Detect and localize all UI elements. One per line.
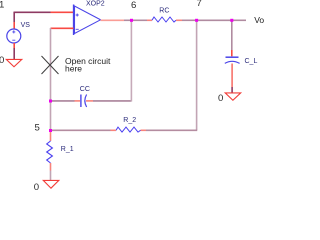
pin R_2 right (salmon) <box>141 129 147 131</box>
pin R_1 top (salmon) <box>50 131 52 141</box>
wire node6 to RC (mauve) <box>131 19 147 21</box>
junction dot at CC tap <box>49 100 52 103</box>
wire to ground (dark) <box>13 48 15 59</box>
svg-text:7: 7 <box>197 0 202 9</box>
op-amp output pin (salmon) <box>101 19 125 21</box>
pin RC right (salmon) <box>176 19 182 21</box>
wire node1 horizontal (dark) <box>14 11 51 13</box>
resistor R_2 zigzag <box>116 127 141 132</box>
capacitor C1 curved plate <box>85 95 87 108</box>
svg-text:R_2: R_2 <box>123 117 136 124</box>
wire feedback row right segment (mauve) <box>146 129 197 131</box>
junction dot at CL tap <box>230 19 233 22</box>
wire CL tap down (mauve) <box>231 20 233 50</box>
svg-text:RC: RC <box>159 7 169 14</box>
VS plus symbol <box>12 30 15 33</box>
junction dot node 5 <box>49 129 52 132</box>
pin red below Vs <box>13 43 15 48</box>
voltage source VS circle <box>7 29 21 43</box>
wire RC to node7 (mauve) <box>182 19 197 21</box>
svg-text:0: 0 <box>218 93 223 104</box>
pin CL bottom (salmon) <box>231 64 233 88</box>
svg-text:0: 0 <box>0 55 4 66</box>
wire node7 to CL tap (mauve) <box>197 19 232 21</box>
junction dot node 7 <box>195 19 198 22</box>
ground under VS <box>6 59 21 66</box>
capacitor C1 left plate <box>80 95 82 108</box>
wire to Vo (mauve) <box>232 19 247 21</box>
wire node7 down to feedback row (light) <box>196 20 198 130</box>
wire node5 to R_2 (mauve) <box>51 129 111 131</box>
pin RC left (salmon) <box>147 19 152 21</box>
svg-text:R_1: R_1 <box>61 146 74 153</box>
pin red above Vs <box>13 22 15 30</box>
wire CC left (mauve) <box>51 100 75 102</box>
wire CC right to riser (mauve) <box>93 100 131 102</box>
wire pin to op-amp - input (red) <box>51 27 74 29</box>
pin CL top (red) <box>231 50 233 56</box>
wire vertical inverting input down (light) <box>50 28 52 101</box>
svg-text:CC: CC <box>80 86 90 93</box>
svg-text:5: 5 <box>35 123 40 134</box>
ground under R_1 <box>43 180 59 188</box>
svg-text:6: 6 <box>131 0 136 11</box>
svg-text:0: 0 <box>34 182 39 190</box>
pin R_2 left (salmon) <box>111 129 117 131</box>
op-amp minus input mark <box>76 28 79 30</box>
op-amp U1 triangle XOP2 <box>75 6 101 34</box>
wire riser node6 down to CC (light) <box>130 20 132 102</box>
svg-text:here: here <box>65 63 82 73</box>
op-amp input bar <box>73 5 75 36</box>
pin CC left (salmon) <box>75 100 81 102</box>
VS minus symbol <box>12 39 15 41</box>
open circuit X mark <box>42 56 59 74</box>
svg-text:XOP2: XOP2 <box>86 0 105 7</box>
pin R_1 bottom (salmon) <box>50 163 52 171</box>
svg-text:Vo: Vo <box>254 15 264 25</box>
capacitor C_L curved plate <box>225 61 240 63</box>
resistor R_1 zigzag <box>47 141 53 163</box>
svg-text:VS: VS <box>21 22 31 29</box>
op-amp plus input mark <box>76 14 79 17</box>
capacitor C_L top plate <box>226 56 239 58</box>
wire output to node6 (mauve) <box>124 19 131 21</box>
wire pin to op-amp + input (red) <box>51 11 74 13</box>
resistor RC zigzag <box>152 17 176 22</box>
wire node5 down from CC junction (light) <box>50 101 52 131</box>
wire CL to ground (dark) <box>231 87 233 93</box>
ground under C_L <box>225 93 241 100</box>
wire vertical from node1 corner down (dark) <box>13 12 15 22</box>
pin CC right (salmon) <box>86 100 93 102</box>
svg-text:C_L: C_L <box>245 58 258 65</box>
junction dot node 6 <box>130 19 133 22</box>
svg-text:1: 1 <box>0 0 4 11</box>
wire R_1 to ground (light) <box>50 171 52 181</box>
